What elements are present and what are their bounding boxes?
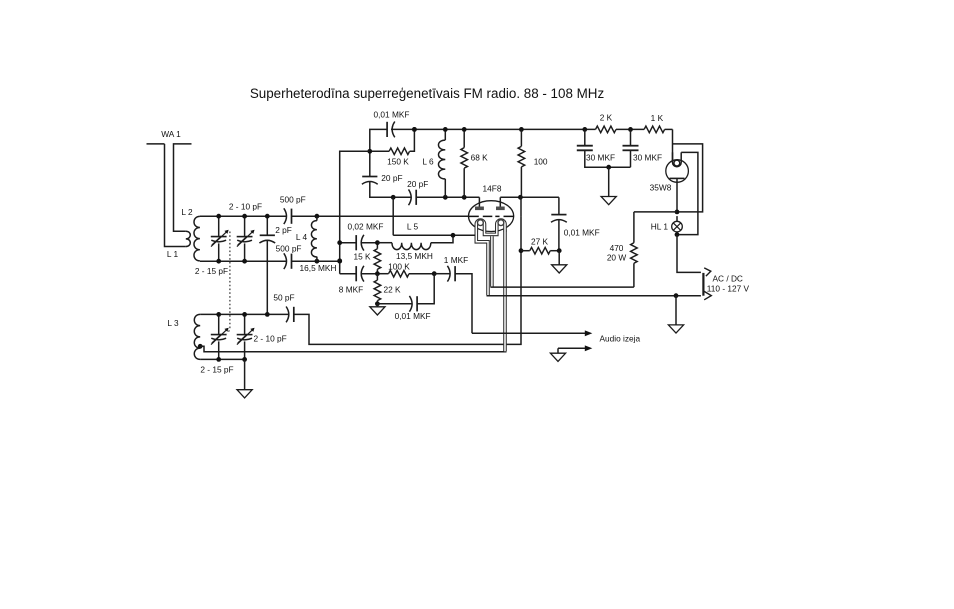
gang dashed line [227,232,230,334]
wire L3 top rail [200,313,289,315]
svg-text:Superheterodīna superreģenetīv: Superheterodīna superreģenetīvais FM rad… [250,86,605,101]
svg-text:2 - 15 pF: 2 - 15 pF [195,266,228,276]
svg-text:500 pF: 500 pF [276,244,302,254]
svg-text:2 - 10 pF: 2 - 10 pF [229,202,262,212]
svg-text:20 pF: 20 pF [407,179,428,189]
resistor 100K [389,270,410,277]
svg-text:100 K: 100 K [388,262,410,272]
svg-text:WA 1: WA 1 [161,129,181,139]
wire 150K tap to divider [340,150,370,152]
svg-text:100: 100 [534,156,548,166]
wire 1K to rectifier [672,129,674,162]
svg-text:30 MKF: 30 MKF [633,152,662,162]
cathode 1 of U1 [476,220,484,231]
resistor 470 20W [631,243,638,264]
node quench [557,248,562,253]
svg-text:20 W: 20 W [607,253,627,263]
svg-text:HL 1: HL 1 [651,222,669,232]
svg-text:Audio izeja: Audio izeja [600,334,641,344]
coil L6 [438,140,445,179]
svg-text:0,01 MKF: 0,01 MKF [395,311,431,321]
capacitor 0,01MKF plate [386,122,388,137]
node tank-top A [216,214,221,219]
wire tank bottom rail [200,260,287,262]
coil L4 [311,221,316,257]
svg-text:110 - 127 V: 110 - 127 V [707,284,750,294]
wire 50pF to grid2 [294,216,521,344]
wire plate RC left [369,129,372,176]
cathode of U2 [673,152,682,166]
resistor 1K [644,126,665,133]
variable capacitor 2-10pF regen [244,314,246,334]
svg-text:150 K: 150 K [387,156,409,166]
coil L3 [194,314,200,359]
ground AC [675,296,677,325]
svg-text:2 - 10 pF: 2 - 10 pF [254,333,287,343]
svg-text:30 MKF: 30 MKF [586,152,615,162]
svg-text:L 2: L 2 [181,207,193,217]
svg-text:0,01 MKF: 0,01 MKF [374,110,410,120]
wire mid rail [445,196,479,198]
variable capacitor 2-10pF osc [244,216,246,236]
resistor 100 [518,146,525,167]
svg-text:1 MKF: 1 MKF [444,255,468,265]
svg-text:14F8: 14F8 [483,184,502,194]
wire heater bar [485,231,497,235]
wire divider vertical [340,151,370,273]
capacitor 0,01MKF fb [377,303,412,305]
svg-text:68 K: 68 K [471,153,489,163]
resistor 68K [461,148,468,169]
svg-text:0,01 MKF: 0,01 MKF [564,228,600,238]
ground regen tank [237,390,252,398]
ground quench [558,251,560,265]
node divider [337,240,342,245]
capacitor 50pF [293,307,295,322]
wire L3 bottom rail [200,358,246,360]
node tank-bottom [216,259,221,264]
coil L5 13,5MKH [377,242,392,244]
svg-text:35W8: 35W8 [650,183,672,193]
variable capacitor 2-15pF regen [218,314,220,334]
capacitor 30MKF second [630,129,632,145]
terminal AC lower [704,291,711,299]
svg-text:13,5 MKH: 13,5 MKH [396,251,433,261]
capacitor 8MKF [340,273,356,275]
wire L5 to cathode1 [453,234,475,236]
svg-text:22 K: 22 K [383,285,401,295]
resistor 27K [530,247,551,254]
svg-text:0,02 MKF: 0,02 MKF [348,221,384,231]
svg-text:2 K: 2 K [600,112,613,122]
coil L2 [194,216,200,260]
coil L1 [186,231,191,246]
svg-text:27 K: 27 K [531,236,549,246]
wire L3 ground stem [244,359,246,389]
anode of U2 [670,177,685,179]
resistor 15K [374,249,381,270]
capacitor 500pF bottom [291,254,293,269]
grid dashes of U1 [469,215,493,217]
variable capacitor 2-15pF osc [218,216,220,236]
svg-text:L 5: L 5 [407,221,419,231]
capacitor 20pF second [393,196,411,198]
wire B+ rail [371,128,388,130]
svg-text:L 3: L 3 [167,318,179,328]
tube U2 35W8 envelope [666,160,689,183]
node L3 tap [198,344,203,349]
svg-text:16,5 MKH: 16,5 MKH [300,263,337,273]
wire L3 tap to cathode [200,346,506,352]
svg-text:L 4: L 4 [296,232,308,242]
node mid rail [391,195,396,200]
capacitor 0,01MKF quench [558,197,560,214]
node below HL1 [675,232,680,237]
wire AC neutral [487,295,701,297]
svg-text:8 MKF: 8 MKF [339,285,363,295]
wire cathode2 leg [503,231,507,352]
svg-text:AC / DC: AC / DC [713,273,743,283]
svg-text:50 pF: 50 pF [273,292,294,302]
capacitor 20pF first [362,176,377,178]
ground 30MKF [608,167,610,196]
antenna WA1 [147,143,165,145]
node 150K junction [367,149,372,154]
resistor 150K [389,148,410,155]
wire to dropper [634,211,677,213]
wire AC hot [677,235,701,273]
wire 470 to heater [490,286,634,288]
wire tank top rail [200,215,287,217]
svg-text:2 - 15 pF: 2 - 15 pF [200,365,233,375]
node 0,02MKF out [375,240,380,245]
ground audio [550,353,565,361]
svg-text:L 6: L 6 [422,156,434,166]
node AC neutral [674,293,679,298]
wire heater inner path [677,152,698,234]
node L3 rails [216,312,221,317]
resistor 2K [596,126,617,133]
anode 2 of U1 [499,197,501,207]
svg-text:15 K: 15 K [353,252,371,262]
wire cathode1 leg [476,231,488,296]
svg-text:1 K: 1 K [651,113,664,123]
tube U1 14F8 envelope [469,201,514,232]
resistor 22K [374,280,381,301]
node L5 junction [451,233,456,238]
ground 22K [376,304,378,307]
anode 1 of U1 [478,197,480,207]
svg-text:500 pF: 500 pF [280,195,306,205]
node grid2 line [519,248,524,253]
svg-text:20 pF: 20 pF [381,173,402,183]
wire audio output 2 [558,347,587,349]
cathode 2 of U1 [497,220,505,231]
capacitor 0,02MKF [340,242,356,244]
capacitor 2pF [266,216,268,235]
node B+ rail [412,127,417,132]
node 22K bottom [375,301,380,306]
node 100K [375,271,380,276]
node above HL1 [675,210,680,215]
wire heater outer path [673,144,703,212]
node 30MKF ground [606,165,611,170]
svg-text:L 1: L 1 [167,249,179,259]
wire audio output 1 [472,332,587,334]
capacitor 1MKF [434,273,450,275]
terminal AC upper [704,268,711,276]
svg-text:2 pF: 2 pF [275,225,292,235]
capacitor 30MKF first [584,129,586,145]
lamp HL1 [672,221,683,232]
capacitor 500pF top [291,209,293,224]
